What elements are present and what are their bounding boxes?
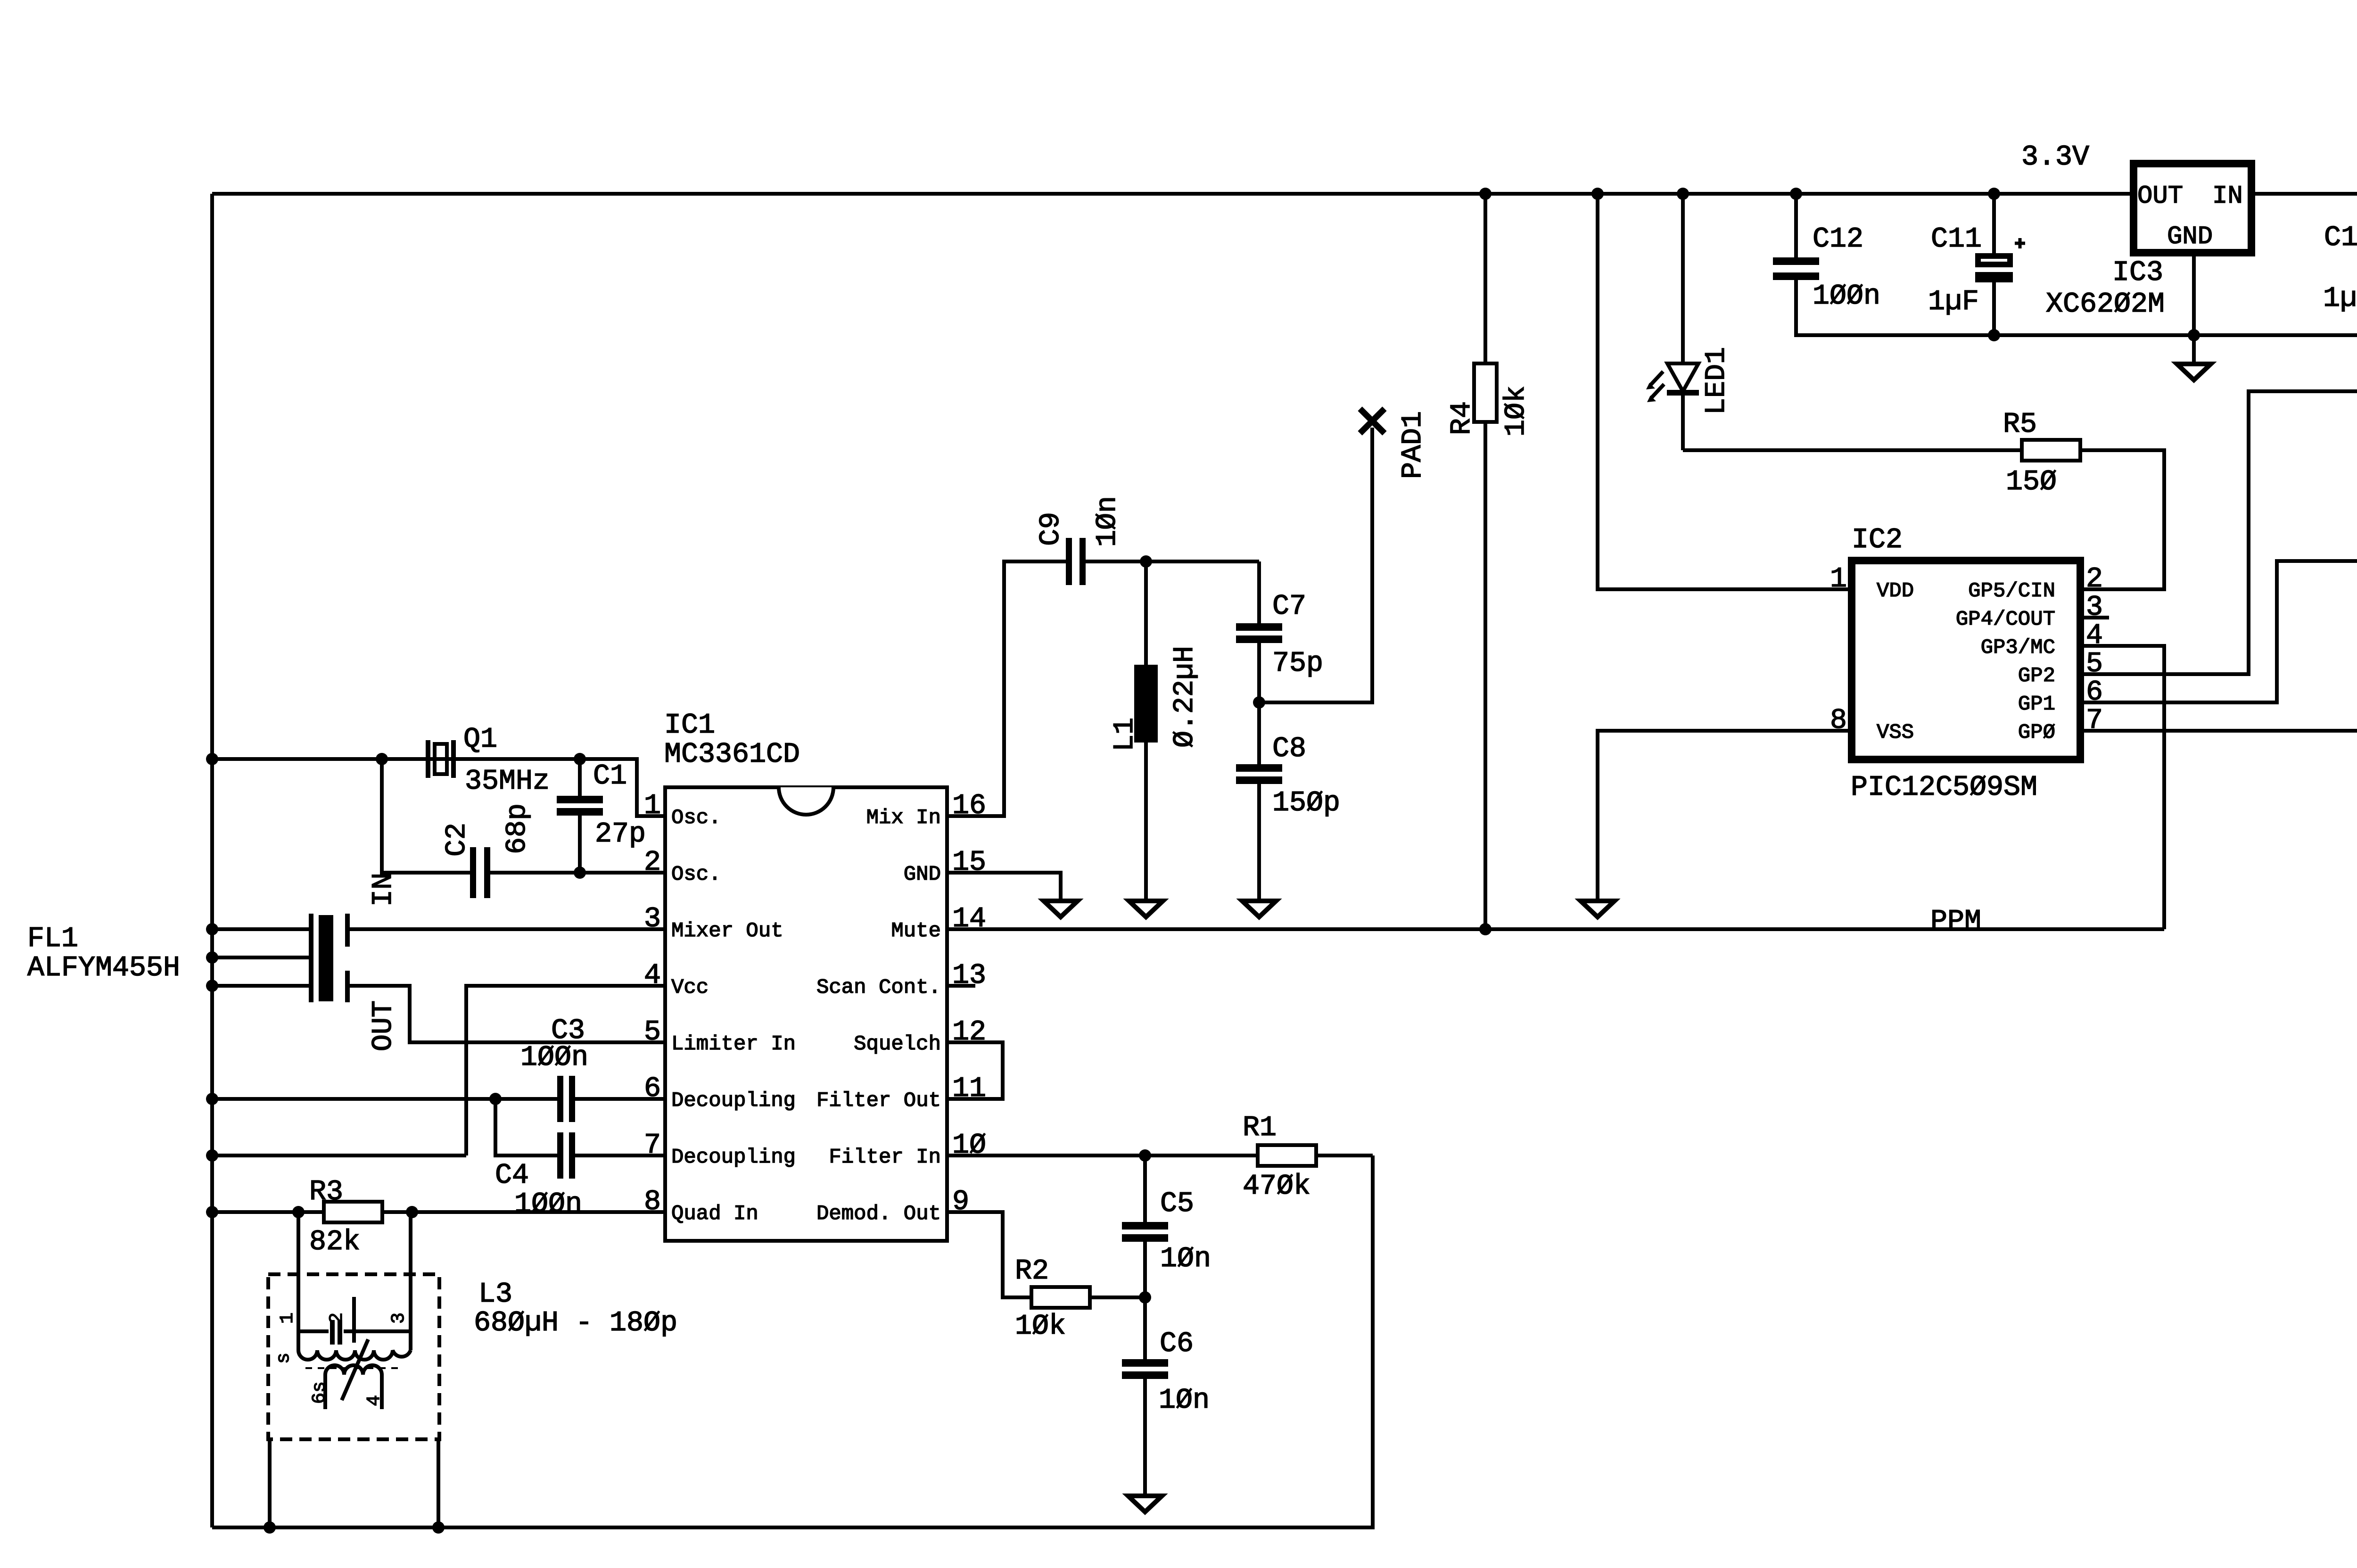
svg-text:C6: C6 [1160, 1328, 1194, 1360]
wire bottom rail [212, 1155, 1373, 1527]
wire +UB top rail (IN side) [2251, 192, 2357, 196]
quad coil L3 680uH-180p [268, 1212, 677, 1439]
svg-text:R2: R2 [1015, 1255, 1049, 1287]
svg-text:1Øk: 1Øk [1015, 1311, 1066, 1343]
svg-text:OUT: OUT [2137, 182, 2183, 211]
svg-text:1: 1 [277, 1312, 298, 1324]
node junction C7 C8 PAD1 [1253, 696, 1265, 709]
capacitor C4 100n [495, 1132, 582, 1221]
label OUT net [368, 1000, 400, 1051]
svg-text:1Øn: 1Øn [1160, 1243, 1211, 1275]
ground IC2 VSS [1581, 901, 1615, 917]
svg-text:Mixer Out: Mixer Out [671, 919, 783, 943]
node junction shield right [432, 1521, 445, 1534]
pin number 6 IC2 [2086, 677, 2103, 709]
wire Mute / PPM line [947, 927, 2164, 931]
node junction C1 bottom / pin2 [574, 867, 586, 879]
node junction FL1 bottom rail [206, 980, 218, 992]
svg-text:1µF: 1µF [1928, 286, 1979, 318]
node junction LED rail [1677, 188, 1689, 200]
node junction R3 left / L3 pin1 [292, 1206, 305, 1218]
pin number 4 IC2 [2086, 620, 2103, 652]
voltage regulator IC3 XC6202M [2046, 164, 2251, 321]
svg-text:R1: R1 [1243, 1112, 1277, 1144]
svg-text:14: 14 [952, 903, 986, 935]
pin number 2 IC2 [2086, 563, 2103, 595]
node junction GND bottom wire [2188, 329, 2200, 341]
svg-text:1ØØn: 1ØØn [1813, 281, 1880, 313]
pin number 3 IC1 [644, 903, 661, 935]
svg-text:68p: 68p [502, 803, 534, 854]
node junction pin7 rail [206, 1149, 218, 1162]
node junction R2 / C5 / C6 [1139, 1291, 1151, 1304]
svg-text:47Øk: 47Øk [1243, 1171, 1310, 1203]
svg-text:GND: GND [2167, 223, 2213, 251]
wire osc pin2 row [382, 759, 665, 873]
svg-text:FL1: FL1 [27, 923, 78, 955]
svg-text:Squelch: Squelch [854, 1032, 941, 1056]
pin number 7 IC1 [644, 1130, 661, 1162]
svg-text:PPM: PPM [1930, 906, 1981, 938]
wire demod out pin9 to R2 [947, 1212, 1031, 1297]
capacitor C1 27p [557, 759, 646, 873]
svg-text:2: 2 [2086, 563, 2103, 595]
svg-text:XC62Ø2M: XC62Ø2M [2046, 289, 2165, 321]
node junction VDD rail [1591, 188, 1604, 200]
svg-text:35MHz: 35MHz [465, 766, 550, 798]
node junction FL1 mid rail [206, 951, 218, 964]
svg-text:R5: R5 [2003, 409, 2037, 441]
wire IC2 VDD to 3.3V rail [1598, 194, 1852, 589]
resistor R5 150 [2003, 409, 2080, 498]
ground below IC3 [2177, 364, 2211, 380]
capacitor C9 10n [1035, 496, 1124, 585]
wire Vcc pin4 to rail [466, 986, 665, 1155]
resistor R3 82k [309, 1176, 382, 1258]
node junction C11 rail [1988, 188, 2000, 200]
pin number 1 IC1 [644, 790, 661, 822]
svg-text:C4: C4 [495, 1160, 529, 1192]
node junction pin8 rail [206, 1206, 218, 1218]
label 3.3V [2021, 141, 2089, 173]
wire IC2 GP1 to CH2 pin1 [2080, 561, 2357, 702]
svg-text:s: s [273, 1353, 295, 1364]
svg-text:15Ø: 15Ø [2006, 466, 2057, 498]
wire L3 shield right to ground rail [437, 1439, 440, 1527]
pad PAD1 [1360, 409, 1429, 479]
pin number 13 IC1 [952, 960, 986, 992]
svg-text:2: 2 [327, 1312, 348, 1324]
svg-text:Mix In: Mix In [866, 806, 941, 830]
svg-text:GP3/MC: GP3/MC [1981, 636, 2055, 660]
pin number 8 IC2 [1830, 705, 1847, 737]
pin number 2 IC1 [644, 847, 661, 879]
crystal Q1 35MHz [428, 724, 550, 798]
pin number 6 IC1 [644, 1073, 661, 1105]
svg-text:PIC12C5Ø9SM: PIC12C5Ø9SM [1851, 772, 2037, 804]
svg-text:1µF: 1µF [2323, 283, 2357, 315]
wire R5 to IC2 pin2 [2080, 450, 2164, 589]
svg-text:ALFYM455H: ALFYM455H [27, 952, 180, 984]
wire IC2 VSS to ground [1598, 731, 1852, 899]
svg-text:1ØØn: 1ØØn [514, 1188, 582, 1221]
svg-text:27p: 27p [595, 818, 646, 850]
wire capacitor bottom bus [1796, 279, 2357, 335]
LED LED1 [1646, 194, 1733, 450]
pin number 12 IC1 [952, 1016, 986, 1048]
svg-text:C5: C5 [1160, 1188, 1194, 1220]
svg-text:1Øn: 1Øn [1092, 496, 1124, 547]
svg-text:82k: 82k [309, 1226, 360, 1258]
pin stub IC2 pin3 [2080, 616, 2109, 619]
pin number 1 IC2 [1830, 563, 1847, 595]
node junction pin6 rail [206, 1093, 218, 1105]
wire pin16 to C9 row [947, 561, 1259, 816]
svg-text:Q1: Q1 [463, 724, 497, 756]
resistor R4 10k [1446, 194, 1533, 929]
ground C6 [1128, 1496, 1162, 1512]
label PPM [1930, 906, 1981, 938]
pin number 3 IC2 [2086, 592, 2103, 624]
wire L3 shield left to ground rail [268, 1439, 272, 1527]
pin number 5 IC2 [2086, 648, 2103, 680]
svg-text:68ØµH - 18Øp: 68ØµH - 18Øp [474, 1307, 677, 1339]
label IN net [368, 873, 400, 907]
wire left ground/supply rail [210, 194, 214, 1527]
svg-text:Mute: Mute [891, 919, 941, 943]
wire decoupling pin6 row [212, 1097, 665, 1101]
svg-text:IC1: IC1 [664, 710, 715, 742]
pin number 4 IC1 [644, 960, 661, 992]
IC IC1 MC3361CD [664, 710, 947, 1241]
resistor R2 10k [1015, 1255, 1145, 1343]
wire FL1 out to limiter in pin5 [347, 986, 665, 1042]
svg-text:C9: C9 [1035, 512, 1067, 546]
svg-text:IC2: IC2 [1852, 524, 1903, 556]
pin stub IC1 pin13 [947, 984, 975, 988]
node junction C11 bottom [1988, 329, 2000, 341]
capacitor C7 75p [1236, 561, 1323, 702]
capacitor C12 [1773, 194, 1880, 313]
svg-text:Limiter In: Limiter In [671, 1032, 796, 1056]
wire IC2 GP2 to CH1 pin1 [2080, 391, 2357, 674]
svg-text:C11: C11 [1931, 223, 1982, 256]
svg-text:Scan Cont.: Scan Cont. [816, 976, 941, 999]
node junction C12 rail [1790, 188, 1802, 200]
svg-text:IN: IN [2212, 182, 2243, 211]
wire IC3 GND pin down [2192, 253, 2196, 362]
resistor R1 470k [1145, 1112, 1373, 1203]
svg-text:L1: L1 [1109, 718, 1141, 751]
svg-text:VSS: VSS [1877, 721, 1914, 744]
wire IC2 GP3/MC to PPM line [2080, 646, 2164, 929]
svg-text:3.3V: 3.3V [2021, 141, 2089, 173]
svg-text:GP4/COUT: GP4/COUT [1956, 608, 2055, 631]
svg-text:Decoupling: Decoupling [671, 1146, 796, 1169]
capacitor C6 10n [1122, 1297, 1210, 1494]
pin number 10 IC1 [952, 1130, 986, 1162]
svg-text:C12: C12 [1813, 223, 1863, 256]
svg-text:LED1: LED1 [1701, 347, 1733, 415]
wire pin6 branch down to C4 row [495, 1099, 665, 1155]
wire pin15 GND down [947, 873, 1061, 899]
svg-text:IN: IN [368, 873, 400, 907]
svg-text:GND: GND [904, 863, 941, 886]
capacitor C10 (polarized 1uF) [2323, 194, 2357, 335]
pin number 15 IC1 [952, 847, 986, 879]
wire filter in pin10 row [947, 1154, 1145, 1157]
node junction pin10 / C5 / R1 [1139, 1149, 1151, 1162]
pin number 11 IC1 [952, 1073, 986, 1105]
svg-text:Quad In: Quad In [671, 1202, 758, 1226]
wire IC2 GP0 to CH3 pin1 [2080, 729, 2357, 733]
pin number 8 IC1 [644, 1186, 661, 1218]
svg-text:C7: C7 [1272, 591, 1306, 623]
node junction C9 / L1 [1140, 555, 1152, 568]
wire Q1 oscillator rail [212, 759, 665, 816]
IC IC2 PIC12C509SM [1851, 524, 2080, 804]
svg-text:GP2: GP2 [2018, 664, 2055, 688]
node junction pin6 to C4 branch [489, 1093, 502, 1105]
svg-text:1ØØn: 1ØØn [520, 1042, 588, 1074]
ground IC1 GND pin15 [1044, 901, 1078, 917]
svg-text:Decoupling: Decoupling [671, 1089, 796, 1113]
node junction osc rail left [206, 753, 218, 765]
ground L1 [1129, 901, 1163, 917]
wire FL1 bottom pin [212, 984, 309, 988]
capacitor C2 68p [441, 803, 534, 898]
svg-text:15Øp: 15Øp [1272, 787, 1340, 819]
node junction R4 rail [1479, 188, 1492, 200]
svg-text:OUT: OUT [368, 1000, 400, 1051]
wire FL1 middle pin [212, 956, 309, 959]
capacitor C3 100n [520, 1015, 588, 1122]
svg-text:C8: C8 [1272, 733, 1306, 765]
capacitor C8 150p [1236, 702, 1340, 899]
svg-text:6s: 6s [309, 1381, 330, 1404]
wire mixer out pin3 row [212, 927, 665, 931]
pin number 7 IC2 [2086, 705, 2103, 737]
capacitor C11 (polarized 1uF) [1928, 194, 2025, 335]
pin number 14 IC1 [952, 903, 986, 935]
node junction pin3 rail [206, 923, 218, 935]
svg-text:3: 3 [388, 1312, 410, 1324]
svg-text:GP1: GP1 [2018, 693, 2055, 716]
capacitor C5 10n [1122, 1155, 1211, 1297]
svg-text:VDD: VDD [1877, 579, 1914, 603]
node junction R3 right / L3 pin3 [406, 1206, 418, 1218]
svg-text:Osc.: Osc. [671, 863, 721, 886]
node junction Q1 right / C1 top [574, 753, 586, 765]
pin number 16 IC1 [952, 790, 986, 822]
svg-text:1Øn: 1Øn [1159, 1385, 1210, 1417]
wire quad in pin8 row [212, 1210, 665, 1214]
svg-text:R4: R4 [1446, 401, 1478, 435]
svg-text:PAD1: PAD1 [1397, 411, 1429, 479]
wire 3.3V top rail [212, 192, 2134, 196]
node junction shield left [264, 1521, 276, 1534]
svg-text:Osc.: Osc. [671, 806, 721, 830]
svg-text:4: 4 [364, 1395, 385, 1406]
svg-text:Demod. Out: Demod. Out [816, 1202, 941, 1226]
wire junction to PAD1 [1259, 428, 1372, 702]
svg-text:C2: C2 [441, 823, 473, 857]
wire squelch pin12 to filter out pin11 [947, 1042, 1003, 1099]
svg-text:75p: 75p [1272, 648, 1323, 680]
svg-text:L3: L3 [478, 1279, 512, 1311]
node junction R4 mute line [1479, 923, 1492, 935]
svg-text:C1Ø: C1Ø [2324, 222, 2357, 254]
svg-text:Ø.22µH: Ø.22µH [1169, 646, 1201, 748]
pin number 5 IC1 [644, 1016, 661, 1048]
svg-text:GPØ: GPØ [2018, 721, 2055, 744]
wire pin7 row left segment [212, 1154, 466, 1157]
svg-text:Filter In: Filter In [829, 1146, 941, 1169]
svg-text:IC3: IC3 [2112, 257, 2163, 289]
svg-text:1Øk: 1Øk [1500, 386, 1533, 437]
svg-text:GP5/CIN: GP5/CIN [1968, 579, 2055, 603]
pin number 9 IC1 [952, 1186, 969, 1218]
svg-text:MC3361CD: MC3361CD [664, 739, 800, 771]
wire LED to R5 [1683, 448, 2022, 452]
svg-text:Vcc: Vcc [671, 976, 709, 999]
ceramic filter FL1 ALFYM455H [27, 914, 347, 1002]
node junction Q1 left [376, 753, 388, 765]
svg-text:Filter Out: Filter Out [816, 1089, 941, 1113]
svg-text:C1: C1 [593, 760, 627, 792]
ground C8 [1242, 901, 1276, 917]
inductor L1 0.22uH [1109, 561, 1201, 899]
svg-text:R3: R3 [309, 1176, 343, 1208]
